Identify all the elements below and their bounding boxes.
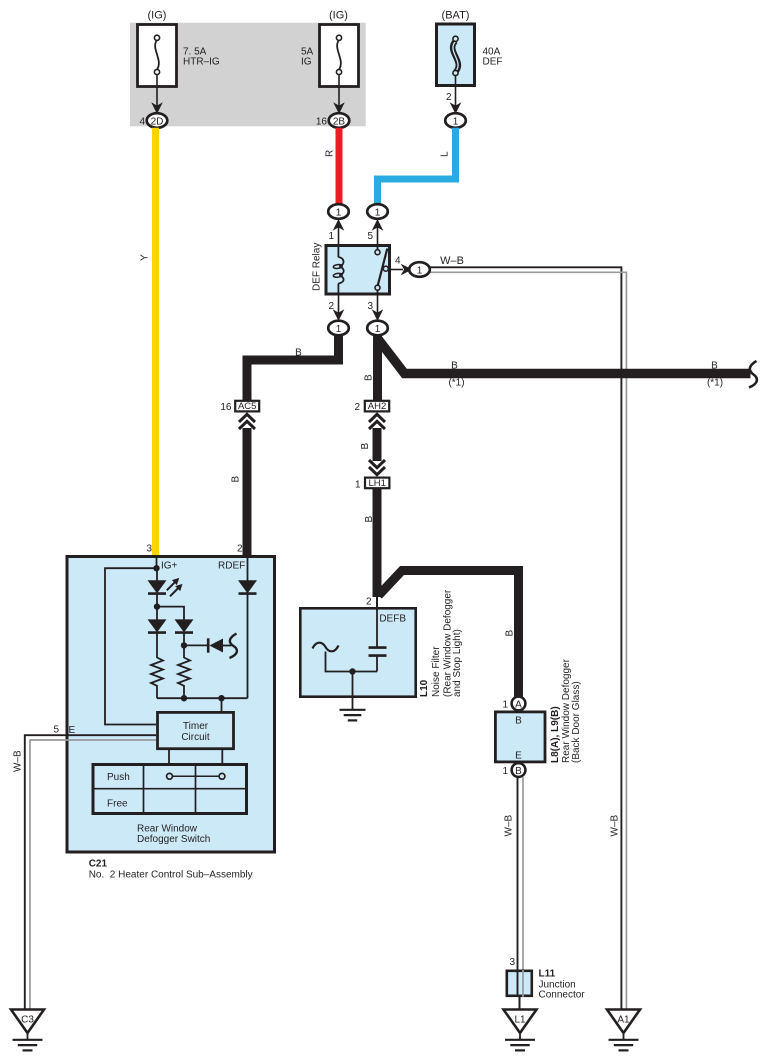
svg-text:L8(A), L9(B): L8(A), L9(B) — [550, 706, 561, 763]
connector 1 (below relay pin 3) — [367, 321, 388, 336]
connector 1 (relay pin 1) — [328, 204, 349, 219]
svg-text:3: 3 — [146, 544, 152, 555]
wire B (*1) branch to right with break — [378, 339, 757, 389]
connector 2B pin 16 — [316, 113, 349, 128]
wire into relay pin 1 — [328, 219, 344, 244]
timer circuit box — [158, 712, 234, 748]
relay pin 2 wire to connector — [328, 296, 344, 322]
svg-text:(*1): (*1) — [707, 378, 723, 389]
svg-text:Push: Push — [107, 772, 130, 783]
svg-text:(*1): (*1) — [448, 378, 464, 389]
ground C3 — [11, 1010, 44, 1051]
ground L1 — [504, 1010, 537, 1051]
resistor R2 — [178, 658, 190, 699]
svg-text:L10: L10 — [419, 679, 430, 697]
svg-text:4: 4 — [395, 256, 401, 267]
svg-text:1: 1 — [417, 265, 423, 276]
svg-text:2: 2 — [328, 301, 334, 312]
svg-text:DEF: DEF — [483, 57, 503, 68]
svg-text:5: 5 — [367, 231, 373, 242]
wire Y (yellow) — [152, 128, 159, 556]
svg-text:B: B — [360, 443, 371, 450]
svg-text:A: A — [515, 699, 522, 710]
svg-text:Free: Free — [107, 799, 128, 810]
connector 1 (below relay pin 2) — [328, 321, 349, 336]
relay switch — [375, 244, 390, 296]
svg-text:A1: A1 — [617, 1015, 630, 1026]
svg-text:(IG): (IG) — [329, 10, 348, 22]
svg-text:16: 16 — [220, 402, 232, 413]
svg-text:Rear Window: Rear Window — [137, 824, 198, 835]
chevrons below AC5 — [239, 414, 255, 429]
svg-text:W–B: W–B — [13, 750, 24, 772]
contact table Push/Free — [93, 765, 247, 814]
svg-text:1: 1 — [502, 700, 508, 711]
svg-text:2: 2 — [354, 402, 360, 413]
switch title — [137, 824, 210, 846]
svg-text:(Back Door Glass): (Back Door Glass) — [571, 681, 582, 763]
svg-text:B: B — [505, 630, 516, 637]
svg-text:B: B — [363, 374, 374, 381]
defogger L8(A) L9(B) box — [495, 712, 545, 762]
wire B from noise filter junction to L8 pin A — [379, 571, 519, 699]
wire B from pin 3 connector to AH2 — [363, 332, 377, 401]
svg-text:B: B — [515, 766, 522, 777]
switch assembly C21 box — [67, 544, 275, 853]
LED D3 — [175, 619, 194, 658]
diode RDEF — [218, 557, 257, 698]
connector B (L8 pin 1 lower) — [502, 763, 525, 777]
svg-text:No. 2 Heater Control Sub–Asse: No. 2 Heater Control Sub–Assembly — [89, 870, 253, 881]
svg-text:E: E — [515, 751, 522, 762]
pin 5 E wire W-B to C3 — [13, 725, 156, 1010]
wire left rail to timer — [105, 568, 157, 724]
svg-text:1: 1 — [502, 766, 508, 777]
svg-text:R: R — [325, 150, 336, 157]
wire fuse to connector 2B — [333, 75, 345, 115]
fuse HTR-IG 7.5A — [138, 10, 220, 87]
coil (wave) in L10 — [313, 643, 378, 672]
wire B from LH1 to noise filter — [364, 488, 377, 597]
LED D2 — [148, 619, 167, 658]
svg-text:L1: L1 — [514, 1015, 526, 1026]
fuse IG 5A — [301, 10, 359, 87]
node IG+ — [153, 557, 177, 572]
L8 caption (rotated) — [550, 658, 582, 763]
connector 1 (relay pin 5) — [367, 204, 388, 219]
junction block J/B (gray) — [130, 23, 366, 127]
relay coil — [333, 244, 344, 296]
bottom rail with nodes — [157, 695, 248, 711]
wire into relay pin 5 — [367, 219, 383, 250]
svg-text:W–B: W–B — [440, 255, 464, 267]
svg-text:16: 16 — [316, 116, 328, 127]
svg-text:W–B: W–B — [504, 815, 515, 837]
LED D1 (indicator) — [148, 568, 183, 596]
ground symbol under L10 — [340, 710, 366, 721]
svg-text:Circuit: Circuit — [181, 732, 210, 743]
svg-text:B: B — [711, 361, 718, 372]
switch contact in Push row — [167, 773, 225, 779]
svg-text:Timer: Timer — [183, 721, 209, 732]
svg-text:1: 1 — [375, 324, 381, 335]
capacitor C in L10 — [369, 608, 387, 672]
connector 1 below fusible link — [445, 113, 466, 128]
chevrons above LH1 — [369, 460, 385, 475]
svg-text:2D: 2D — [151, 116, 164, 127]
wire pin lead into DEFB — [366, 595, 377, 608]
wire B from pin 2 connector to AC5 — [247, 332, 339, 401]
svg-text:C21: C21 — [89, 859, 108, 870]
node and ground lead in L10 — [349, 668, 355, 709]
relay pin 4 wire to connector — [390, 256, 413, 276]
svg-text:Connector: Connector — [539, 990, 586, 1001]
svg-text:(IG): (IG) — [148, 10, 167, 22]
wire fuse to connector 1, pin 2 — [446, 76, 461, 115]
svg-text:1: 1 — [336, 324, 342, 335]
noise filter L10 box — [300, 608, 415, 696]
connector AC5 pin 16 — [220, 401, 259, 413]
resistor R1 — [151, 658, 163, 699]
svg-text:C3: C3 — [21, 1015, 34, 1026]
svg-text:5: 5 — [53, 725, 59, 736]
connector 2D pin 4 — [139, 113, 167, 128]
svg-text:B: B — [231, 476, 242, 483]
chevrons below AH2 — [369, 414, 385, 429]
ground A1 — [607, 1010, 640, 1051]
svg-text:IG+: IG+ — [161, 561, 178, 572]
L10 caption (rotated) — [419, 589, 463, 697]
svg-text:L11: L11 — [539, 969, 556, 980]
C21 caption — [89, 859, 253, 881]
wire B between AH2 and LH1 — [360, 428, 377, 461]
svg-text:IG: IG — [301, 57, 312, 68]
junction connector L11 — [507, 969, 586, 1001]
node and branch to diode D4 — [181, 642, 208, 648]
svg-text:3: 3 — [367, 301, 373, 312]
svg-text:AC5: AC5 — [238, 401, 256, 412]
svg-text:Defogger Switch: Defogger Switch — [137, 834, 210, 845]
wire fuse to connector 2D — [151, 75, 163, 115]
svg-text:B: B — [451, 361, 458, 372]
svg-text:RDEF: RDEF — [218, 561, 245, 572]
svg-text:B: B — [295, 348, 302, 359]
relay pin 3 wire to connector — [367, 296, 383, 322]
svg-text:2: 2 — [446, 92, 452, 103]
svg-text:LH1: LH1 — [368, 478, 385, 489]
svg-text:W–B: W–B — [610, 815, 621, 837]
svg-text:Y: Y — [140, 254, 151, 261]
fusible link DEF 40A (BAT) — [437, 10, 503, 86]
wire L (blue) — [378, 128, 456, 205]
svg-text:1: 1 — [336, 207, 342, 218]
svg-text:2B: 2B — [333, 116, 346, 127]
connector 1 (relay pin 4) — [409, 262, 430, 277]
svg-text:1: 1 — [328, 231, 334, 242]
timer to contact table wires — [169, 749, 222, 765]
svg-text:1: 1 — [375, 207, 381, 218]
relay DEF Relay — [312, 243, 390, 294]
wire W-B from L8 pin B to L11 — [504, 777, 524, 997]
svg-text:DEF Relay: DEF Relay — [312, 243, 323, 291]
svg-text:2: 2 — [237, 544, 243, 555]
connector A (L8 pin 1) — [502, 697, 525, 711]
node below LED D1 — [154, 594, 184, 621]
svg-text:2: 2 — [366, 597, 372, 608]
svg-text:L: L — [440, 151, 451, 157]
svg-text:AH2: AH2 — [368, 401, 386, 412]
svg-text:1: 1 — [453, 116, 459, 127]
wire L11 to ground L1 — [519, 996, 521, 1009]
svg-text:HTR–IG: HTR–IG — [183, 57, 220, 68]
wire B from AC5 chevrons to C21 pin 2 — [231, 428, 247, 556]
svg-text:3: 3 — [509, 957, 515, 968]
svg-text:and Stop Light): and Stop Light) — [452, 629, 463, 697]
svg-text:(BAT): (BAT) — [442, 10, 470, 22]
svg-text:DEFB: DEFB — [379, 614, 406, 625]
wire R (red) — [336, 128, 343, 205]
svg-text:1: 1 — [355, 479, 361, 490]
svg-text:4: 4 — [139, 116, 145, 127]
connector AH2 pin 2 — [354, 401, 389, 413]
connector LH1 pin 1 — [355, 478, 389, 491]
svg-text:Noise Filter: Noise Filter — [431, 646, 442, 697]
svg-text:B: B — [515, 716, 522, 727]
wire W-B from relay pin 4 to right and down to A1 — [430, 255, 627, 1009]
svg-text:B: B — [364, 516, 375, 523]
diode D4 — [208, 634, 237, 659]
